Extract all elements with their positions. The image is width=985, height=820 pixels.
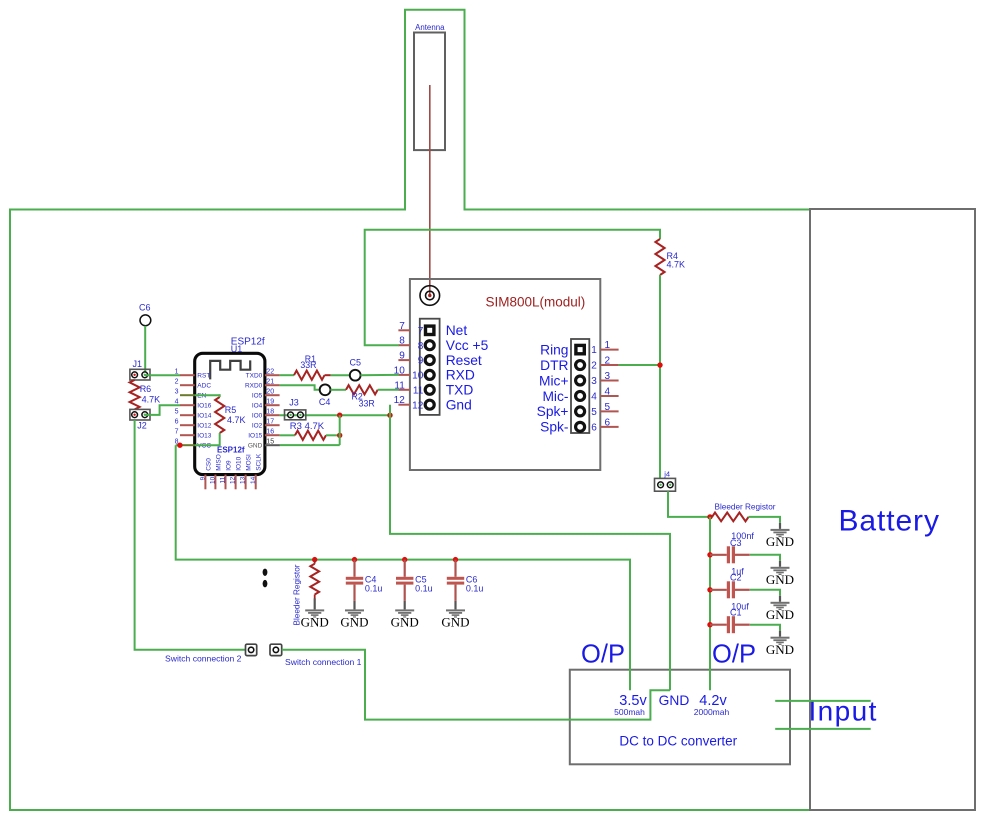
wire J1 to RST xyxy=(145,374,180,376)
svg-text:6: 6 xyxy=(591,422,597,433)
svg-text:2: 2 xyxy=(175,379,179,386)
svg-text:IO16: IO16 xyxy=(197,403,211,410)
svg-text:C3: C3 xyxy=(730,538,742,548)
ESP12f module U1 body xyxy=(195,353,265,474)
svg-text:O/P: O/P xyxy=(712,641,756,669)
node junction bleeder 2 xyxy=(312,557,317,562)
svg-text:J1: J1 xyxy=(133,359,143,369)
DC to DC converter box xyxy=(570,670,790,765)
svg-text:GND: GND xyxy=(301,615,329,630)
node junction DTR xyxy=(657,362,662,367)
svg-text:Spk+: Spk+ xyxy=(537,404,569,419)
SIM800L right header pad 3 xyxy=(576,376,585,385)
ESP pin 20 stub (IO5) xyxy=(265,394,280,396)
pin 11 stub xyxy=(398,389,410,391)
ESP pin 2 stub (ADC) xyxy=(180,384,195,386)
svg-text:IO2: IO2 xyxy=(252,423,263,430)
svg-text:GND: GND xyxy=(248,443,263,450)
svg-text:22: 22 xyxy=(266,369,274,376)
svg-text:Switch connection 2: Switch connection 2 xyxy=(165,654,242,664)
wire VCC pin to corner xyxy=(176,444,180,446)
ground GND (bleeder) xyxy=(779,523,781,529)
ESP pin 15 stub (GND) xyxy=(265,444,280,446)
SIM800L right header pad 4 xyxy=(576,391,585,400)
svg-text:GND: GND xyxy=(766,607,794,622)
svg-text:19: 19 xyxy=(266,399,274,406)
svg-text:500mah: 500mah xyxy=(614,707,645,717)
svg-text:IO15: IO15 xyxy=(248,433,262,440)
ground GND (C1) xyxy=(779,631,781,637)
node junction C5 bus xyxy=(402,557,407,562)
capacitor C5 0.1u xyxy=(404,560,406,577)
ESP pin 3 stub (EN) xyxy=(180,394,195,396)
ground GND (C3) xyxy=(779,561,781,567)
svg-text:RST: RST xyxy=(197,373,210,380)
SIM800L right header pad 6 xyxy=(576,422,585,431)
svg-text:1: 1 xyxy=(591,345,597,356)
svg-text:R3 4.7K: R3 4.7K xyxy=(290,421,325,432)
svg-text:10: 10 xyxy=(412,371,424,382)
node junction C2 xyxy=(707,587,712,592)
svg-text:C5: C5 xyxy=(350,358,362,368)
wire antenna feed xyxy=(429,85,431,296)
ESP pin 17 stub (IO2) xyxy=(265,424,280,426)
pin 12 stub xyxy=(398,404,410,406)
capacitor C6 0.1u xyxy=(454,560,456,577)
svg-text:IO5: IO5 xyxy=(252,393,263,400)
svg-text:TXD: TXD xyxy=(446,383,474,398)
pin 2 stub xyxy=(600,364,618,366)
node junction C1 xyxy=(707,622,712,627)
svg-text:33R: 33R xyxy=(300,360,316,370)
svg-text:U1: U1 xyxy=(231,344,243,354)
svg-text:Gnd: Gnd xyxy=(446,398,472,413)
svg-text:J3: J3 xyxy=(289,398,299,408)
ESP pin 10 stub (MISO) xyxy=(214,475,216,490)
wire IO0 row (GND net) xyxy=(280,414,390,416)
svg-text:GND: GND xyxy=(766,534,794,549)
wire R4 to J4 xyxy=(659,275,661,478)
wire R3 to node xyxy=(326,434,340,436)
capacitor C3 xyxy=(710,554,727,556)
capacitor C6 (pad) xyxy=(140,315,151,326)
capacitor C2 xyxy=(710,589,727,591)
svg-text:6: 6 xyxy=(175,419,179,426)
svg-text:2: 2 xyxy=(591,361,597,372)
svg-text:Vcc +5: Vcc +5 xyxy=(446,338,489,353)
ground GND (bleeder 2) xyxy=(314,599,316,610)
switch connection 1 pad xyxy=(270,644,282,655)
svg-text:8: 8 xyxy=(399,336,405,347)
svg-text:11: 11 xyxy=(220,476,227,483)
svg-text:0.1u: 0.1u xyxy=(466,584,484,594)
svg-text:IO14: IO14 xyxy=(197,413,211,420)
ESP pin 22 stub (TXD0) xyxy=(265,374,280,376)
SIM800L right header pad 5 xyxy=(576,407,585,416)
ESP pin 9 stub (CS0) xyxy=(204,475,206,490)
svg-text:0.1u: 0.1u xyxy=(415,584,433,594)
ground GND (C5) xyxy=(404,601,406,610)
ESP pin 4 stub (IO16) xyxy=(180,404,195,406)
ESP pin 18 stub (IO0) xyxy=(265,414,280,416)
svg-text:O/P: O/P xyxy=(581,641,625,669)
wire TXD0 to R1 xyxy=(280,374,294,376)
wire C3 to GND xyxy=(750,555,780,561)
SIM800L left header pad 10 xyxy=(425,370,434,379)
wire input + xyxy=(775,700,871,702)
svg-text:C2: C2 xyxy=(730,573,742,583)
node junction C6 bus xyxy=(453,557,458,562)
node junction R3 xyxy=(337,433,342,438)
svg-text:TXD0: TXD0 xyxy=(246,373,263,380)
svg-text:SCLK: SCLK xyxy=(256,453,263,471)
wire border net (left, top with antenna notch) xyxy=(10,10,810,811)
svg-text:4: 4 xyxy=(605,386,611,397)
wire bleeder to GND xyxy=(749,517,781,523)
svg-text:MOSI: MOSI xyxy=(246,454,253,471)
ground GND (C2) xyxy=(779,596,781,602)
svg-text:Reset: Reset xyxy=(446,353,482,368)
svg-text:IO9: IO9 xyxy=(225,460,232,471)
pin 7 stub xyxy=(398,329,410,331)
SIM800L left header pin 7 pad (square) xyxy=(424,324,436,336)
ESP pin 12 stub (IO10) xyxy=(235,475,237,490)
svg-text:9: 9 xyxy=(418,356,424,367)
svg-text:10: 10 xyxy=(210,476,217,484)
svg-text:CS0: CS0 xyxy=(205,458,212,471)
wire R1 to C5 xyxy=(331,374,350,376)
svg-text:GND: GND xyxy=(340,615,368,630)
wire R2 to SIM TXD xyxy=(378,389,399,391)
svg-text:7: 7 xyxy=(418,326,424,337)
ESP pin 11 stub (IO9) xyxy=(225,475,227,490)
svg-text:2000mah: 2000mah xyxy=(694,707,730,717)
resistor Bleeder Registor (bottom) xyxy=(314,560,316,564)
pin 3 stub xyxy=(600,380,618,382)
svg-text:1: 1 xyxy=(605,340,611,351)
pin 6 stub xyxy=(600,426,618,428)
svg-text:12: 12 xyxy=(394,395,406,406)
wire switch connection 1 to DC-DC GND xyxy=(282,650,670,720)
SIM800L left header pad 11 xyxy=(425,385,434,394)
svg-text:Net: Net xyxy=(446,323,468,338)
wire J4 to bleeder node xyxy=(668,491,710,517)
SIM800L left header pad 12 xyxy=(425,400,434,409)
wire node vertical xyxy=(339,415,341,445)
wire EN to R5 xyxy=(195,394,220,396)
resistor Bleeder Registor (right) xyxy=(712,513,749,522)
resistor R2 xyxy=(346,385,378,394)
svg-text:Ring: Ring xyxy=(540,342,568,357)
wire C6 to J1 xyxy=(144,326,146,375)
svg-text:Spk-: Spk- xyxy=(540,420,568,435)
SIM800L module U2 body xyxy=(410,279,600,470)
wire border net (bottom) xyxy=(10,809,810,811)
svg-text:j4: j4 xyxy=(663,470,670,479)
ESP pin 1 stub (RST) xyxy=(180,374,195,376)
node junction VCC xyxy=(177,443,182,448)
node junction at SIM Gnd column xyxy=(387,413,392,418)
svg-text:4: 4 xyxy=(591,392,597,403)
svg-text:IO4: IO4 xyxy=(252,403,263,410)
wire DTR to net xyxy=(619,364,660,366)
wire J2 to switch connection 2 xyxy=(135,420,246,650)
svg-text:3: 3 xyxy=(591,376,597,387)
wire C4 to R2 xyxy=(330,389,346,391)
svg-text:18: 18 xyxy=(266,409,274,416)
pin 1 stub xyxy=(600,349,618,351)
SIM800L left header pad 9 xyxy=(425,356,434,365)
SIM800L right header pad 2 xyxy=(576,361,585,370)
ESP pin 19 stub (IO4) xyxy=(265,404,280,406)
connector J4 xyxy=(655,478,676,491)
SIM800L left header box xyxy=(420,319,440,415)
capacitor C5 (pad) xyxy=(350,370,361,381)
ESP pin 5 stub (IO14) xyxy=(180,414,195,416)
resistor R5 (inside ESP) xyxy=(215,397,224,433)
svg-text:DC to DC converter: DC to DC converter xyxy=(619,734,737,749)
svg-text:R6: R6 xyxy=(140,384,152,394)
svg-text:RXD0: RXD0 xyxy=(245,383,263,390)
wire C5 to SIM RXD xyxy=(360,374,399,376)
svg-text:GND: GND xyxy=(441,615,469,630)
capacitor C1 xyxy=(710,624,727,626)
svg-text:RXD: RXD xyxy=(446,368,475,383)
svg-text:IO10: IO10 xyxy=(236,456,243,470)
wire IO15 to R3 xyxy=(280,434,295,436)
wire RXD0 to C4 xyxy=(280,385,320,390)
svg-text:3: 3 xyxy=(605,371,611,382)
wire R5 to VCC xyxy=(195,433,220,445)
svg-text:GND: GND xyxy=(391,615,419,630)
svg-text:R5: R5 xyxy=(225,405,237,415)
svg-text:Mic+: Mic+ xyxy=(539,373,569,388)
ESP pin 14 stub (SCLK) xyxy=(255,475,257,490)
connector J2 xyxy=(130,409,150,420)
svg-text:GND: GND xyxy=(659,693,690,708)
svg-text:IO13: IO13 xyxy=(197,433,211,440)
SIM800L right header box xyxy=(571,339,589,433)
wire gnd rail x710 xyxy=(709,517,711,690)
pin 5 stub xyxy=(600,410,618,412)
resistor R4 xyxy=(655,239,664,275)
svg-text:DTR: DTR xyxy=(540,358,568,373)
node junction bleeder xyxy=(707,514,712,519)
svg-text:12: 12 xyxy=(230,476,237,484)
ESP pin 8 stub (VCC) xyxy=(180,444,195,446)
svg-text:J2: J2 xyxy=(137,421,147,431)
svg-text:4.7K: 4.7K xyxy=(142,394,161,404)
pin 10 stub xyxy=(398,374,410,376)
svg-text:C4: C4 xyxy=(319,397,331,407)
svg-text:3: 3 xyxy=(175,389,179,396)
ESP pin 6 stub (IO12) xyxy=(180,424,195,426)
switch connection 2 pad xyxy=(246,644,257,655)
svg-text:Switch connection 1: Switch connection 1 xyxy=(285,657,362,667)
node junction C4 bus xyxy=(352,557,357,562)
wire C2 to GND xyxy=(750,590,780,596)
svg-text:9: 9 xyxy=(399,351,405,362)
svg-text:C6: C6 xyxy=(139,302,151,312)
svg-text:12: 12 xyxy=(412,400,424,411)
svg-text:7: 7 xyxy=(399,321,405,332)
antenna ANT1 xyxy=(414,33,445,151)
wire J2 to IO16 xyxy=(145,405,180,415)
ground GND (C4) xyxy=(353,601,355,610)
svg-text:8: 8 xyxy=(418,341,424,352)
SIM800L right header pin 1 pad (square) xyxy=(574,344,586,356)
svg-text:14: 14 xyxy=(250,476,257,484)
svg-text:Mic-: Mic- xyxy=(542,389,568,404)
wire SIM Gnd to DC-DC GND xyxy=(390,405,670,691)
wire node to ESP GND pin xyxy=(280,444,340,446)
ground GND (C6) xyxy=(454,601,456,610)
wire VCC net down to bus xyxy=(176,445,630,690)
svg-text:C1: C1 xyxy=(730,608,742,618)
svg-text:SIM800L(modul): SIM800L(modul) xyxy=(486,295,586,310)
resistor R1 xyxy=(294,371,325,380)
svg-text:5: 5 xyxy=(175,409,179,416)
connector J1 xyxy=(130,369,150,380)
svg-text:21: 21 xyxy=(266,379,274,386)
ESP pin 7 stub (IO13) xyxy=(180,434,195,436)
pin 9 stub xyxy=(398,359,410,361)
node junction at J3 net xyxy=(337,413,342,418)
svg-text:11: 11 xyxy=(413,385,424,396)
svg-text:5: 5 xyxy=(605,402,611,413)
svg-text:GND: GND xyxy=(766,642,794,657)
svg-text:Antenna: Antenna xyxy=(415,23,445,32)
svg-text:20: 20 xyxy=(266,389,274,396)
svg-text:17: 17 xyxy=(266,419,274,426)
capacitor C4 0.1u xyxy=(353,560,355,577)
resistor R6 xyxy=(130,380,140,409)
svg-text:Battery: Battery xyxy=(839,505,940,538)
svg-text:4.7K: 4.7K xyxy=(667,260,686,270)
svg-text:ESP12f: ESP12f xyxy=(217,446,245,455)
ESP pin 13 stub (MOSI) xyxy=(245,475,247,490)
svg-text:15: 15 xyxy=(266,439,274,446)
wire input - xyxy=(775,728,871,730)
svg-text:33R: 33R xyxy=(359,398,375,408)
svg-text:2: 2 xyxy=(605,356,611,367)
svg-text:IO0: IO0 xyxy=(252,413,263,420)
svg-text:7: 7 xyxy=(175,429,179,436)
pin 8 stub xyxy=(398,344,410,346)
svg-text:0.1u: 0.1u xyxy=(365,584,383,594)
svg-text:9: 9 xyxy=(200,476,207,480)
svg-text:Bleeder Registor: Bleeder Registor xyxy=(715,503,776,512)
capacitor C4 (pad) xyxy=(320,384,331,395)
svg-text:IO12: IO12 xyxy=(197,423,211,430)
unused pads xyxy=(263,569,268,576)
antenna connector (coax) xyxy=(420,286,440,306)
SIM800L left header pad 8 xyxy=(425,341,434,350)
svg-text:4.7K: 4.7K xyxy=(227,415,246,425)
ESP12f antenna meander xyxy=(210,360,250,379)
svg-text:MISO: MISO xyxy=(215,454,222,471)
resistor R3 xyxy=(295,431,326,440)
ESP pin 16 stub (IO15) xyxy=(265,434,280,436)
ESP pin 21 stub (RXD0) xyxy=(265,384,280,386)
pin 4 stub xyxy=(600,395,618,397)
wire Vcc+5 net to R4 xyxy=(365,230,660,345)
svg-text:13: 13 xyxy=(240,476,247,484)
svg-text:GND: GND xyxy=(766,572,794,587)
Battery box xyxy=(810,209,975,810)
connector J3 xyxy=(285,410,306,420)
wire C1 to GND xyxy=(750,625,780,631)
node junction C3 xyxy=(707,552,712,557)
svg-text:5: 5 xyxy=(591,407,597,418)
svg-text:6: 6 xyxy=(605,417,611,428)
svg-text:ADC: ADC xyxy=(197,383,211,390)
svg-text:16: 16 xyxy=(266,429,274,436)
